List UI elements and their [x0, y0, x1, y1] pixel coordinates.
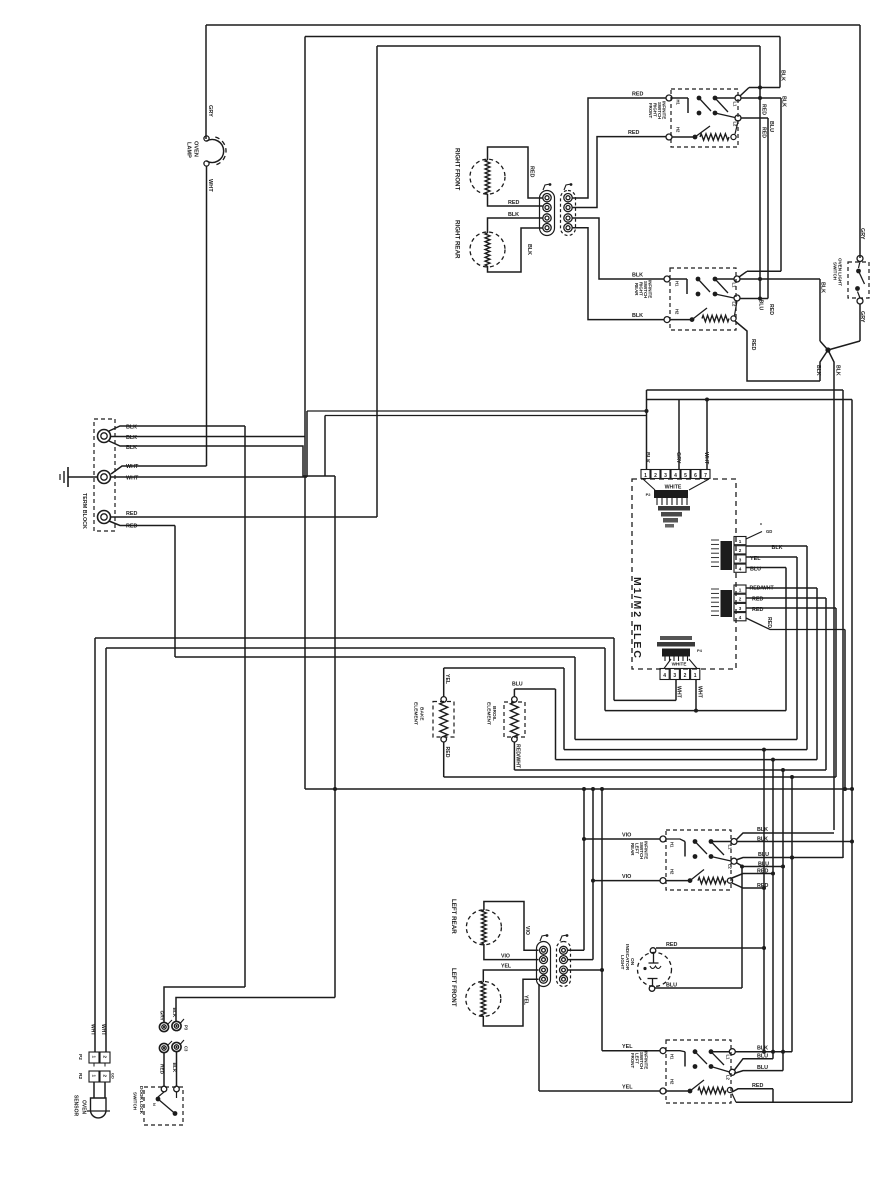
svg-text:H2: H2: [675, 309, 680, 315]
label RED3 m1m2: [752, 607, 763, 613]
terminal H1 rr switch: [664, 276, 680, 287]
label WHT riser1: [90, 1024, 96, 1035]
label BLK rr h2 feed: [632, 313, 643, 319]
door lock switch contacts: [152, 1086, 179, 1116]
svg-text:RED: RED: [766, 617, 772, 628]
wire BLU lf row2: [734, 1071, 783, 1074]
label OVEN LAMP: [186, 141, 199, 158]
label BLK rr h1 feed: [632, 273, 643, 279]
wire junction to BLK risers: [820, 350, 834, 830]
label BLK plug top: [171, 1008, 177, 1018]
svg-text:6: 6: [694, 473, 697, 479]
riser x539 YEL: [538, 984, 540, 1091]
label BLK1: [126, 425, 137, 431]
label RED/WHT m1m2: [750, 586, 775, 592]
svg-text:RED: RED: [768, 304, 774, 315]
wire L2 rf to L2 rr BLU: [740, 118, 768, 299]
wire fan y759.6: [556, 759, 818, 761]
svg-text:3: 3: [739, 557, 742, 562]
infinite switch right front box: [671, 89, 738, 147]
label LEFT FRONT: [450, 968, 457, 1007]
door lock switch box: [144, 1087, 183, 1125]
svg-text:H2: H2: [676, 127, 681, 133]
wire RED4 diag from M1/M2: [746, 618, 847, 791]
label DOOR LOCK SWITCH: [133, 1086, 145, 1115]
svg-text:1: 1: [739, 588, 742, 593]
svg-text:FRONT: FRONT: [648, 103, 653, 118]
svg-text:BLK: BLK: [815, 365, 821, 376]
wire BLU lr row2: [736, 863, 783, 869]
svg-text:GRY: GRY: [675, 452, 681, 464]
label BLU lf2: [757, 1065, 768, 1071]
wire indicator RED: [656, 942, 764, 948]
svg-text:GRY: GRY: [159, 1011, 165, 1022]
label BLK pin1: [644, 452, 650, 463]
left rear surface element: [466, 910, 501, 945]
svg-text:VIO: VIO: [524, 926, 530, 935]
terminal L2 rf switch: [733, 115, 742, 127]
svg-text:RED: RED: [752, 1083, 763, 1089]
wire YEL from M1/M2: [746, 557, 797, 740]
label INFINITE SWITCH LEFT FRONT: [630, 1051, 649, 1069]
label BLU m1m2: [750, 567, 761, 573]
wire BLK lf row: [735, 1051, 792, 1053]
svg-text:WHT: WHT: [676, 686, 682, 699]
wire BLK plug riser: [176, 998, 335, 1022]
wire BLU lf row1: [734, 1059, 773, 1071]
wire c3R to RR switch H1: [573, 218, 665, 279]
wire H1 left rear VIO: [584, 838, 661, 840]
svg-text:1: 1: [644, 473, 647, 479]
terminal L2 rr switch: [732, 295, 741, 307]
svg-text:BLK: BLK: [126, 445, 137, 451]
svg-text:P2: P2: [77, 1054, 83, 1060]
label VIO lr top: [524, 926, 530, 935]
riser x773: [771, 758, 775, 1059]
wire c2R bottom: [568, 959, 594, 961]
wire RED/WHT from M1/M2: [746, 588, 817, 760]
ground symbol: [60, 467, 98, 487]
wire WHT bottom pin1: [676, 680, 682, 701]
wire L2 top feed (x305-780 y36.5): [305, 37, 780, 790]
rr switch heater: [670, 301, 737, 322]
riser x742 BLU ind: [741, 867, 743, 989]
label RED2: [126, 524, 137, 530]
svg-text:RIGHT REAR: RIGHT REAR: [454, 220, 461, 259]
label YEL lf h2: [622, 1085, 633, 1091]
label BLK3: [126, 445, 137, 451]
svg-text:L1: L1: [733, 102, 738, 108]
svg-text:BROIL: BROIL: [491, 706, 497, 721]
wire right rear element top: [488, 218, 543, 233]
lr switch contacts: [666, 839, 731, 861]
svg-text:BLK: BLK: [835, 365, 841, 376]
wire broil bottom RED/WHT: [514, 742, 826, 770]
M1/M2 right connector P8: [711, 585, 746, 621]
svg-text:BLK: BLK: [171, 1008, 177, 1018]
label BLU bottom: [758, 300, 764, 311]
svg-text:7: 7: [704, 473, 707, 479]
svg-text:H1: H1: [675, 281, 680, 287]
wire WHT pin1 link: [614, 699, 676, 701]
svg-text:BLU: BLU: [666, 983, 677, 989]
wire RED2 from M1/M2: [746, 598, 826, 770]
connector P5 plug strip: [537, 934, 551, 986]
label OVEN LIGHT SWITCH: [833, 258, 843, 286]
svg-text:4: 4: [663, 673, 666, 679]
terminal H2 lr switch: [660, 869, 675, 884]
M1/M2 top connector pins 1-7: [641, 470, 710, 480]
svg-text:L1: L1: [732, 283, 737, 289]
terminal H1 lf switch: [660, 1048, 675, 1060]
svg-text:GD: GD: [111, 1073, 115, 1079]
M1/M2 bottom connector body: [657, 636, 703, 669]
svg-text:4: 4: [739, 567, 742, 572]
wire RED1 term to L3 riser: [111, 516, 378, 518]
svg-text:2: 2: [654, 473, 657, 479]
svg-text:REAR: REAR: [630, 843, 635, 856]
svg-text:RED: RED: [632, 92, 643, 98]
label BLU lr2: [758, 862, 769, 868]
svg-text:WHT: WHT: [126, 476, 139, 482]
label RED4 m1m2: [766, 617, 772, 628]
svg-text:YEL: YEL: [750, 556, 761, 562]
wire RED to door lock: [164, 1052, 177, 1087]
label BLK rr bottom: [526, 244, 532, 255]
label RED lf: [752, 1083, 763, 1089]
infinite switch left front box: [666, 1040, 731, 1103]
label YEL bake: [444, 674, 450, 685]
svg-text:2: 2: [684, 673, 687, 679]
connector P1 plug strip: [540, 183, 555, 235]
wire BLK2 term to L2 riser: [111, 436, 306, 438]
label RED plug: [159, 1064, 165, 1075]
label YEL m1m2: [750, 556, 761, 562]
svg-text:VIO: VIO: [622, 874, 631, 880]
svg-text:BLK: BLK: [632, 313, 643, 319]
wire oven light sw to junction: [828, 304, 860, 350]
plug BLK top: [172, 1019, 189, 1031]
svg-text:1: 1: [92, 1075, 97, 1078]
wire L3 top feed (x377-760 y46): [377, 46, 760, 517]
label WHT pin7: [703, 452, 709, 465]
label VIO lr h2: [622, 874, 631, 880]
wire BLK lr row2: [737, 840, 854, 844]
svg-text:BLK: BLK: [757, 1046, 768, 1052]
svg-text:BLK: BLK: [508, 212, 519, 218]
junction node BLK: [825, 347, 830, 352]
svg-text:3: 3: [739, 606, 742, 611]
svg-text:RED: RED: [444, 747, 450, 758]
wire WHT bottom pin2: [696, 680, 703, 711]
svg-text:WHT: WHT: [703, 452, 709, 465]
label ON INDICATOR LIGHT: [619, 944, 635, 971]
terminal H2 lf switch: [660, 1079, 675, 1094]
svg-text:SWITCH: SWITCH: [133, 1092, 138, 1111]
label GRY above switch: [859, 228, 865, 240]
label GRY pin4: [675, 452, 681, 464]
label BLK junction left: [815, 365, 821, 376]
connector R2: [77, 1063, 115, 1082]
svg-text:BLK: BLK: [126, 435, 137, 441]
svg-text:2: 2: [103, 1056, 108, 1059]
svg-text:BLK: BLK: [781, 96, 787, 107]
label OVEN SENSOR: [73, 1095, 87, 1117]
label BLK l1 rr: [820, 282, 826, 293]
label INFINITE SWITCH RIGHT FRONT: [648, 101, 667, 119]
svg-text:FRONT: FRONT: [630, 1053, 635, 1068]
label M1/M2 ELEC: [631, 577, 643, 660]
svg-text:YEL: YEL: [523, 995, 529, 1006]
svg-text:3: 3: [673, 673, 676, 679]
wire left rear top VIO: [484, 902, 539, 951]
terminal L1 rf switch: [733, 95, 742, 107]
svg-text:REAR: REAR: [634, 283, 639, 296]
svg-text:LEFT REAR: LEFT REAR: [450, 899, 457, 934]
wire right rear element bottom: [488, 228, 543, 272]
wire rr heater out RED: [735, 321, 820, 381]
svg-text:H2: H2: [670, 1079, 675, 1085]
label WHT oven lamp: [207, 179, 213, 192]
wire fan y710.6: [605, 709, 786, 713]
svg-text:H1: H1: [670, 842, 675, 848]
wire H1 left front YEL: [602, 1050, 661, 1052]
svg-text:RED: RED: [752, 607, 763, 613]
label BLK junction right: [835, 365, 841, 376]
svg-text:L1: L1: [728, 845, 733, 851]
svg-text:2: 2: [103, 1075, 108, 1078]
svg-text:DOOR LOCK: DOOR LOCK: [139, 1086, 144, 1115]
rf switch contacts: [672, 96, 735, 118]
svg-text:SWITCH: SWITCH: [833, 262, 838, 281]
label RED rf bottom: [508, 200, 519, 206]
oven light switch contacts: [855, 256, 864, 305]
label RED l3 lower: [761, 127, 767, 138]
wire RED3 from M1/M2: [746, 608, 836, 777]
wire right front element top: [488, 147, 543, 198]
wire fan y739.5: [575, 739, 797, 741]
plug BLK bottom: [172, 1040, 189, 1052]
label BLK2: [126, 435, 137, 441]
oven lamp: [204, 136, 226, 166]
riser x602 YEL: [600, 787, 604, 1051]
svg-text:P3: P3: [184, 1025, 189, 1031]
junction dots L3 riser: [758, 86, 762, 301]
svg-text:BLU: BLU: [768, 121, 774, 132]
label INFINITE SWITCH LEFT REAR: [630, 841, 649, 859]
wire c3R bottom: [568, 969, 603, 971]
svg-text:YEL: YEL: [444, 674, 450, 685]
left front surface element: [466, 981, 501, 1016]
terminal H2 rr switch: [664, 309, 680, 323]
label RED/WHT broil: [515, 744, 521, 769]
svg-text:H1: H1: [676, 100, 681, 106]
infinite switch right rear box: [670, 268, 736, 330]
svg-text:5: 5: [684, 473, 687, 479]
svg-text:RED: RED: [761, 127, 767, 138]
label BROIL ELEMENT: [486, 702, 498, 725]
label RED h2 feed: [628, 130, 639, 136]
terminal H2 rf switch: [666, 127, 681, 140]
wire WHT2 term: [111, 411, 648, 477]
bus wire 1 (y638): [95, 638, 614, 1052]
M1/M2 top connector body: [643, 479, 709, 528]
label BLK l2 riser: [780, 70, 786, 81]
wire BLK3 term: [109, 416, 647, 998]
wire RED lr row1: [732, 874, 773, 879]
svg-text:GRY: GRY: [859, 228, 865, 240]
wire fan y749.6: [564, 749, 807, 751]
bus wire 2 (y648): [106, 648, 605, 1052]
plug RED: [159, 1041, 172, 1053]
label BLK lf: [757, 1046, 768, 1052]
svg-text:WHITE: WHITE: [665, 485, 682, 491]
svg-text:M1/M2 ELEC: M1/M2 ELEC: [631, 577, 643, 660]
label BLK plug bottom: [171, 1063, 177, 1073]
svg-text:1: 1: [739, 539, 742, 544]
label WHT riser2: [100, 1024, 106, 1035]
svg-text:BLK: BLK: [820, 282, 826, 293]
terminal L2 lr switch: [728, 858, 738, 869]
terminal L2 lf switch: [726, 1069, 736, 1080]
wire right front element bottom: [488, 194, 543, 206]
label INFINITE SWITCH RIGHT REAR: [634, 280, 653, 298]
bake element: [433, 697, 454, 742]
label BLK rr top: [508, 212, 519, 218]
label WHT upper: [126, 464, 139, 470]
wire BLU from M1/M2: [746, 568, 786, 711]
svg-text:OVEN: OVEN: [193, 141, 199, 157]
svg-text:BLK: BLK: [757, 827, 768, 833]
svg-text:ELEMENT: ELEMENT: [413, 702, 419, 725]
svg-text:3: 3: [664, 473, 667, 479]
label BLK m1m2: [772, 545, 783, 551]
svg-text:H2: H2: [670, 869, 675, 875]
svg-text:BLU: BLU: [750, 567, 761, 573]
wire bake top YEL: [444, 668, 564, 750]
label BLU broil: [512, 682, 523, 688]
svg-text:4: 4: [674, 473, 677, 479]
label BLK lr2: [757, 837, 768, 843]
label WHT lower: [126, 476, 139, 482]
wire oven lamp to term block WHT: [111, 166, 207, 474]
M1/M2 ELEC box: [632, 479, 736, 669]
label RED2 m1m2: [752, 597, 763, 603]
svg-text:OVEN: OVEN: [81, 1100, 87, 1115]
wire BLK1 term to x245: [109, 426, 245, 987]
wire L1 rr to junction BLK: [740, 279, 828, 350]
label BLK lr1: [757, 827, 768, 833]
wire BLK lr row1: [736, 833, 834, 840]
wire L1 top feed (x206-860 y25): [206, 25, 860, 258]
label RED bake: [444, 747, 450, 758]
riser x792: [790, 775, 794, 1052]
lf switch contacts: [666, 1049, 730, 1072]
wire y390 cross link: [647, 390, 844, 858]
svg-text:WHT: WHT: [126, 464, 139, 470]
label RED l3 upper: [761, 104, 767, 115]
wire L2 to L1 rf: [740, 88, 780, 97]
svg-text:WHT: WHT: [100, 1024, 106, 1035]
svg-text:RED: RED: [750, 339, 756, 350]
connector P2: [77, 1052, 110, 1063]
label RED1: [126, 511, 137, 517]
svg-text:RED: RED: [628, 130, 639, 136]
terminal H1 lr switch: [660, 836, 675, 848]
svg-text:P4: P4: [697, 648, 703, 653]
wire c1R to RF switch H1: [573, 98, 667, 198]
rr switch contacts: [670, 277, 734, 298]
rf switch heater: [672, 122, 738, 141]
wire left front top YEL: [483, 970, 538, 982]
label VIO lr h1: [622, 833, 631, 839]
terminal H1 rf switch: [666, 95, 681, 106]
svg-text:WHT: WHT: [207, 179, 213, 192]
wire c4R to RR switch H2: [573, 228, 665, 320]
riser x783: [781, 768, 785, 1071]
wire indicator BLU: [655, 983, 742, 989]
label RED lr1: [757, 869, 768, 875]
svg-text:BLU: BLU: [512, 682, 523, 688]
svg-text:RED: RED: [761, 104, 767, 115]
broil element: [504, 697, 525, 742]
svg-text:RED/WHT: RED/WHT: [515, 744, 521, 769]
wire pin1 riser: [645, 390, 649, 469]
svg-text:C3: C3: [184, 1046, 189, 1052]
label BLU lr1: [758, 852, 769, 858]
svg-text:SENSOR: SENSOR: [73, 1095, 79, 1117]
svg-text:BLK: BLK: [780, 70, 786, 81]
svg-text:RED: RED: [508, 200, 519, 206]
label RED rf top: [529, 166, 535, 177]
svg-text:WHITE: WHITE: [672, 662, 687, 667]
svg-text:GRY: GRY: [207, 105, 213, 117]
label VIO lr bottom: [501, 954, 510, 960]
wire left rear bottom VIO: [484, 944, 539, 960]
svg-text:L2: L2: [728, 864, 733, 870]
svg-text:GD: GD: [766, 529, 772, 534]
right front surface element: [470, 159, 505, 194]
riser x584 VIO: [582, 787, 586, 950]
svg-text:RED: RED: [126, 511, 137, 517]
plug GRY: [159, 1020, 172, 1032]
wire H2 left rear VIO: [593, 880, 661, 882]
svg-text:RED: RED: [126, 524, 137, 530]
label RED h1 feed: [632, 92, 643, 98]
svg-text:BAKE: BAKE: [419, 707, 425, 721]
svg-text:TERM BLOCK: TERM BLOCK: [81, 493, 87, 529]
wire BLU lr row1: [736, 856, 843, 861]
on indicator light: [638, 948, 672, 992]
label TERM BLOCK: [81, 493, 87, 529]
label RED l2 rr: [768, 304, 774, 315]
svg-text:BLU: BLU: [757, 1054, 768, 1060]
wire RED2 term to mid bus: [109, 521, 175, 657]
label LEFT REAR: [450, 899, 457, 934]
svg-text:RED: RED: [757, 869, 768, 875]
label BLU lf1: [757, 1054, 768, 1060]
svg-text:2: 2: [739, 548, 742, 553]
riser x593 VIO: [591, 787, 595, 960]
wire bottom rail: [732, 1094, 852, 1103]
svg-text:BLK: BLK: [772, 545, 783, 551]
wire bake bottom RED: [444, 742, 836, 777]
label BAKE ELEMENT: [413, 702, 425, 725]
svg-text:R2: R2: [77, 1073, 83, 1079]
svg-text:ELEMENT: ELEMENT: [486, 702, 492, 725]
svg-text:RIGHT FRONT: RIGHT FRONT: [454, 148, 461, 190]
wire RED lr row2: [732, 883, 764, 888]
